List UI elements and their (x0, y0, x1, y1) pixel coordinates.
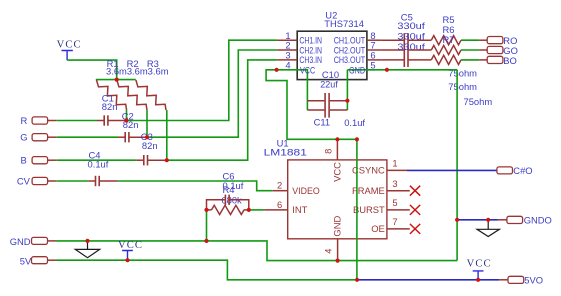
resistor R7 75ohm (431, 34, 492, 107)
svg-text:VCC: VCC (57, 40, 82, 51)
resistor R2 (117, 58, 147, 110)
port C#O (497, 165, 533, 176)
resistor R1 (97, 58, 127, 110)
svg-text:B: B (21, 155, 27, 166)
wire GND rail (56, 241, 457, 261)
junction VCC rail / vertical (355, 137, 359, 141)
supply VCC (bottom-right) (467, 259, 492, 280)
svg-text:BURST: BURST (353, 204, 385, 215)
svg-text:G: G (20, 132, 27, 143)
resistor R3 (136, 58, 166, 110)
junction VCC/resistor rail (115, 78, 119, 82)
port GND (10, 236, 56, 247)
svg-text:CV: CV (17, 175, 31, 186)
svg-text:2: 2 (277, 179, 282, 190)
op-amp U1 LM1881 box (264, 137, 387, 238)
svg-text:4: 4 (285, 60, 290, 71)
svg-text:GND: GND (331, 216, 342, 237)
svg-text:5: 5 (370, 60, 375, 71)
svg-text:0.1uf: 0.1uf (223, 180, 244, 191)
junction R line (124, 118, 128, 122)
svg-text:22uf: 22uf (320, 79, 338, 90)
junction G line (145, 135, 149, 139)
junction R4 left (204, 208, 208, 212)
junction GNDO ground symbol (486, 218, 490, 222)
no-connect X on OE (410, 224, 420, 234)
wire R5 to RO (461, 39, 479, 41)
svg-text:BO: BO (503, 55, 517, 66)
svg-text:3.6m3.6m3.6m: 3.6m3.6m3.6m (106, 66, 169, 77)
svg-text:R: R (21, 115, 28, 126)
wire VCC net: jog down to U1 pin 8 rail (266, 70, 357, 140)
wire CV line left (56, 180, 88, 182)
U1 pin 4 GND (bottom) (323, 216, 343, 261)
svg-text:75ohm: 75ohm (448, 81, 477, 92)
U2 pin 8 CH1.OUT (334, 30, 382, 46)
wire R line left (56, 120, 97, 122)
port CV (17, 175, 56, 186)
wire R1 bottom stub (126, 110, 128, 120)
U2 pin 1 CH1.IN (277, 30, 322, 46)
svg-text:7: 7 (392, 216, 397, 227)
U1 pin 5 BURST (353, 197, 410, 215)
svg-text:C11: C11 (314, 116, 331, 127)
svg-text:VCC: VCC (300, 64, 315, 75)
junction GNDO row / GND vertical (455, 218, 459, 222)
wire R6 to GO (461, 49, 479, 51)
svg-text:8: 8 (323, 149, 334, 154)
svg-text:LM1881: LM1881 (264, 147, 307, 158)
capacitor C2 82n (118, 111, 147, 143)
svg-text:THS7314: THS7314 (324, 18, 364, 29)
port 5VO (499, 275, 543, 286)
port 5V (20, 256, 56, 267)
wire R7 to BO (461, 59, 479, 61)
wire CH1.OUT row (382, 39, 404, 41)
wire GNDO row (blue) (457, 219, 498, 221)
U2 pin 2 CH2.IN (277, 40, 322, 56)
junction GND symbol left (85, 239, 89, 243)
svg-text:GND: GND (349, 64, 365, 75)
svg-text:6: 6 (277, 199, 282, 210)
junction R4 right (247, 208, 251, 212)
U1 pin 8 VCC (top) (323, 139, 343, 182)
svg-text:R5: R5 (443, 14, 455, 25)
capacitor C6 0.1uf (parallel branch above R4) (207, 171, 249, 210)
svg-text:0.1uf: 0.1uf (88, 159, 109, 170)
wire G line right + riser to U2 pin2 (147, 50, 277, 137)
capacitor C4 0.1uf (88, 150, 118, 187)
no-connect X on BURST (410, 205, 420, 215)
junction B line (165, 158, 169, 162)
port BO (479, 55, 517, 66)
svg-text:GNDO: GNDO (524, 214, 552, 225)
svg-text:82n: 82n (142, 140, 158, 151)
wire GND net: right vertical down to GNDO row (456, 70, 458, 261)
svg-text:GND: GND (10, 236, 31, 247)
junction U2 pin5 GND (385, 68, 389, 72)
wire B line right + riser to U2 pin3 (167, 60, 277, 160)
svg-text:R7: R7 (443, 34, 455, 45)
wire CH2.OUT row (382, 49, 404, 51)
svg-text:VCC: VCC (331, 162, 342, 182)
wire CV line to U1 VIDEO (118, 181, 273, 191)
junction U2 pin4 VCC (275, 68, 279, 72)
port B (21, 155, 57, 166)
resistor R5 75ohm (431, 14, 477, 79)
svg-text:82n: 82n (102, 101, 118, 112)
supply VCC (top-left) (57, 40, 82, 61)
junction C10 right (345, 99, 349, 103)
svg-text:5VO: 5VO (524, 275, 543, 286)
wire cap to R6 (408, 49, 431, 51)
wire CSYNC to C#O (blue) (407, 169, 497, 171)
junction VCC symbol bottom-right (476, 278, 480, 282)
wire R4/C6 right to U1 INT (249, 209, 265, 211)
U2 pin 7 CH2.OUT (334, 40, 382, 56)
wire cap to R5 (408, 39, 431, 41)
wire 5V to 5VO (blue) (357, 279, 499, 281)
wire 5V line (56, 260, 357, 280)
wire resistor top rail (96, 79, 136, 81)
no-connect X on FRAME (410, 186, 420, 196)
wire GND net: U2 pin5 to right vertical (347, 69, 457, 71)
port RO (479, 35, 517, 46)
ground symbol (GNDO) (477, 220, 499, 237)
svg-text:C#O: C#O (513, 165, 532, 176)
port G (20, 132, 56, 143)
U2 pin 3 CH3.IN (277, 50, 322, 66)
wire VCC feed to resistor rail (67, 60, 117, 80)
resistor R4 680k (207, 184, 249, 214)
svg-text:4: 4 (323, 248, 334, 253)
wire R3 bottom stub (166, 110, 168, 160)
U2 pin 6 CH3.OUT (334, 50, 382, 66)
supply VCC (bottom-left) (118, 240, 143, 260)
junction GND rail / R4 branch (204, 239, 208, 243)
wire cap to R7 (408, 59, 431, 61)
port GNDO (498, 214, 552, 225)
U1 pin 7 OE (371, 216, 410, 234)
U1 pin 1 CSYNC (352, 158, 407, 176)
svg-text:5V: 5V (20, 256, 32, 267)
svg-text:3: 3 (392, 178, 397, 189)
wire G line left (56, 136, 118, 138)
U1 pin 3 FRAME (352, 178, 410, 196)
port GO (479, 45, 518, 56)
svg-text:VCC: VCC (118, 240, 143, 251)
op-amp U2 THS7314 box (297, 10, 367, 80)
capacitor C10 22uf (307, 69, 347, 101)
svg-text:330uf: 330uf (397, 20, 425, 31)
capacitor C3 82n (137, 131, 167, 166)
wire R line right + riser to U2 pin1 (127, 40, 278, 120)
junction VCC vertical / 5V line (355, 278, 359, 282)
junction U1 pin8 (335, 137, 339, 141)
svg-text:VIDEO: VIDEO (292, 185, 319, 196)
wire VCC net: U2 pin4 across box to C10/C11 left rail (277, 70, 308, 110)
port R (21, 115, 57, 126)
capacitor C5 330uf (stacked plates x3) (397, 11, 425, 67)
wire CH3.OUT row (382, 59, 404, 61)
ground symbol (left) (75, 241, 99, 258)
svg-text:5: 5 (392, 197, 397, 208)
junction VCC symbol bottom-left (125, 258, 129, 262)
capacitor C1 82n (97, 92, 127, 125)
wire GND net: drop to C10/C11 right rail (346, 70, 348, 110)
U1 pin 6 INT (264, 199, 307, 215)
U2 pin 5 GND (367, 60, 376, 71)
svg-text:0.1uf: 0.1uf (344, 117, 365, 128)
svg-text:VCC: VCC (467, 259, 492, 270)
resistor R6 75ohm (431, 24, 477, 92)
junction U1 pin4 GND (336, 259, 340, 263)
capacitor C11 0.1uf (307, 110, 365, 128)
capacitor C10/C11 merged plates (325, 93, 329, 118)
wire VCC vertical from U1 pin8 rail down to 5V line (356, 139, 358, 279)
svg-text:INT: INT (292, 204, 307, 215)
svg-text:OE: OE (371, 223, 385, 234)
svg-text:1: 1 (392, 158, 397, 169)
U1 pin 2 VIDEO (273, 179, 320, 196)
U2 pin 4 VCC (277, 60, 297, 71)
svg-text:75ohm: 75ohm (464, 96, 493, 107)
wire B line left (56, 159, 136, 161)
wire R2 bottom stub (146, 110, 148, 137)
wire R4/C6 left to GND rail (206, 210, 208, 241)
